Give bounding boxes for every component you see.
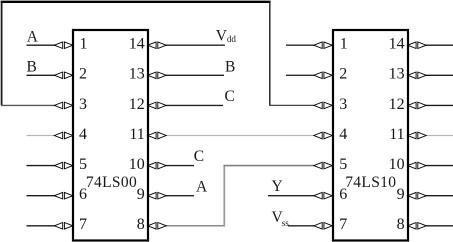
wire net8 into U2 pin 5 bbox=[224, 165, 314, 167]
U1 pin 9 arrow bbox=[148, 192, 167, 199]
svg-text:4: 4 bbox=[79, 126, 87, 143]
svg-text:ss: ss bbox=[282, 218, 290, 228]
svg-text:12: 12 bbox=[389, 96, 405, 113]
U1 pin 7 arrow bbox=[54, 223, 73, 230]
svg-text:11: 11 bbox=[389, 126, 404, 143]
wire U2 pin 13 out bbox=[426, 74, 453, 76]
wire U2 pin 8 out bbox=[426, 225, 453, 227]
U1 pin 6 arrow bbox=[54, 192, 73, 199]
U1 pin 11 arrow bbox=[148, 132, 167, 139]
U1 pin 5 arrow bbox=[54, 162, 73, 169]
svg-text:9: 9 bbox=[137, 186, 145, 203]
svg-text:3: 3 bbox=[339, 96, 347, 113]
svg-text:9: 9 bbox=[397, 186, 405, 203]
svg-text:5: 5 bbox=[339, 156, 347, 173]
U1 pin 13 arrow bbox=[148, 72, 167, 79]
wire U1 pin 10 to C bbox=[166, 165, 194, 167]
wire U2 pin 11 out (gray) bbox=[426, 135, 453, 137]
svg-text:13: 13 bbox=[129, 66, 145, 83]
wire stub U1 pin 4 (gray) bbox=[27, 135, 55, 137]
U2 pin 8 arrow bbox=[408, 223, 427, 230]
svg-text:dd: dd bbox=[227, 34, 237, 44]
svg-text:1: 1 bbox=[80, 36, 88, 53]
wire U2 pin 14 out bbox=[426, 44, 453, 46]
wire U1 pin 12 to C bbox=[166, 104, 223, 106]
svg-text:2: 2 bbox=[79, 66, 87, 83]
svg-text:B: B bbox=[27, 59, 37, 76]
wire B to U1 pin 2 bbox=[27, 74, 55, 76]
U2 pin 12 arrow bbox=[408, 102, 427, 109]
wire net3 into U2 pin 3 bbox=[269, 104, 314, 106]
svg-text:8: 8 bbox=[397, 216, 405, 233]
svg-text:74LS10: 74LS10 bbox=[345, 174, 396, 191]
svg-text:A: A bbox=[196, 178, 208, 195]
svg-text:4: 4 bbox=[339, 126, 347, 143]
wire A to U1 pin 1 bbox=[27, 44, 55, 46]
U2 pin 4 arrow bbox=[314, 132, 333, 139]
wire stub U1 pin 7 bbox=[27, 225, 55, 227]
U2 pin 10 arrow bbox=[408, 162, 427, 169]
wire net3 top horizontal bbox=[1, 1, 271, 3]
svg-text:74LS00: 74LS00 bbox=[86, 174, 137, 191]
svg-text:3: 3 bbox=[79, 96, 87, 113]
U1 pin 3 arrow bbox=[54, 102, 73, 109]
U2 pin 1 arrow bbox=[314, 42, 333, 49]
svg-text:10: 10 bbox=[129, 156, 145, 173]
wire net3 right vertical bbox=[269, 2, 271, 106]
wire U1 pin 14 to Vdd bbox=[166, 44, 225, 46]
svg-text:13: 13 bbox=[389, 66, 405, 83]
svg-text:C: C bbox=[225, 88, 235, 105]
svg-text:14: 14 bbox=[389, 36, 405, 53]
wire U1 pin 9 to A bbox=[166, 195, 194, 197]
wire Vss to U2 pin 7 bbox=[288, 225, 314, 227]
U2 pin 2 arrow bbox=[314, 72, 333, 79]
svg-text:Y: Y bbox=[272, 178, 283, 195]
svg-text:7: 7 bbox=[339, 216, 347, 233]
svg-text:10: 10 bbox=[389, 156, 405, 173]
svg-text:14: 14 bbox=[129, 36, 145, 53]
IC U2 74LS10 body bbox=[333, 30, 408, 241]
U1 pin 8 arrow bbox=[148, 223, 167, 230]
svg-text:7: 7 bbox=[79, 216, 87, 233]
U2 pin 6 arrow bbox=[314, 192, 333, 199]
wire net4 U1 pin 11 to U2 pin 4 (gray) bbox=[166, 135, 314, 137]
svg-text:A: A bbox=[27, 29, 39, 46]
svg-text:2: 2 bbox=[339, 66, 347, 83]
svg-text:5: 5 bbox=[79, 156, 87, 173]
U1 pin 4 arrow bbox=[54, 132, 73, 139]
svg-text:11: 11 bbox=[129, 126, 144, 143]
svg-text:12: 12 bbox=[129, 96, 145, 113]
wire Y to U2 pin 6 bbox=[268, 195, 314, 197]
svg-text:C: C bbox=[194, 148, 204, 165]
wire net8 riser bbox=[223, 165, 225, 227]
U2 pin 7 arrow bbox=[314, 223, 333, 230]
U1 pin 12 arrow bbox=[148, 102, 167, 109]
wire net3 into U1 pin 3 bbox=[1, 104, 55, 106]
wire stub U1 pin 6 bbox=[27, 195, 55, 197]
U2 pin 5 arrow bbox=[314, 162, 333, 169]
wire net8 from U1 pin 8 bbox=[166, 225, 225, 227]
wire stub U2 pin 2 bbox=[286, 74, 314, 76]
wire U2 pin 12 out bbox=[426, 104, 453, 106]
U2 pin 9 arrow bbox=[408, 192, 427, 199]
wire stub U2 pin 1 bbox=[286, 44, 314, 46]
svg-text:8: 8 bbox=[137, 216, 145, 233]
wire stub U1 pin 5 bbox=[27, 165, 55, 167]
wire U1 pin 13 to B bbox=[166, 74, 224, 76]
U1 pin 10 arrow bbox=[148, 162, 167, 169]
U2 pin 13 arrow bbox=[408, 72, 427, 79]
U1 pin 1 arrow bbox=[54, 42, 73, 49]
U2 pin 11 arrow bbox=[408, 132, 427, 139]
svg-text:1: 1 bbox=[340, 36, 348, 53]
IC U1 74LS00 body bbox=[73, 30, 148, 241]
svg-text:B: B bbox=[225, 59, 235, 76]
wire U2 pin 10 out bbox=[426, 165, 453, 167]
wire U2 pin 9 out bbox=[426, 195, 453, 197]
U1 pin 2 arrow bbox=[54, 72, 73, 79]
wire net3 left vertical bbox=[1, 1, 3, 106]
U1 pin 14 arrow bbox=[148, 42, 167, 49]
U2 pin 14 arrow bbox=[408, 42, 427, 49]
U2 pin 3 arrow bbox=[314, 102, 333, 109]
